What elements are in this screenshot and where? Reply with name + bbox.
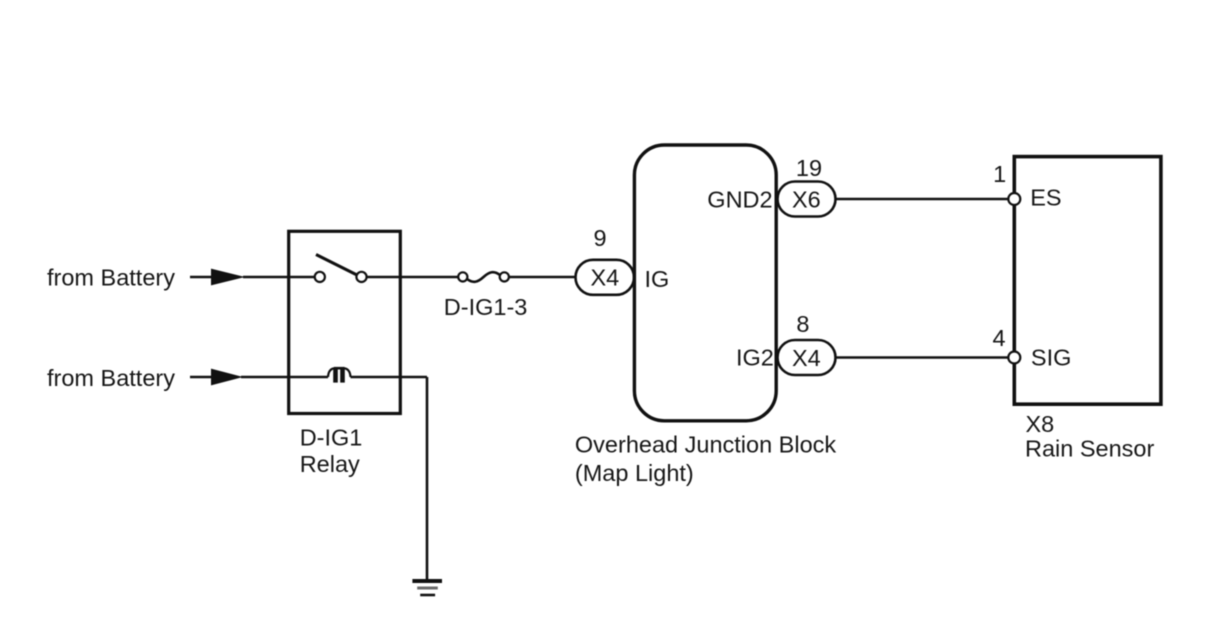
svg-text:X4: X4 bbox=[792, 345, 821, 371]
svg-text:IG: IG bbox=[645, 266, 670, 292]
svg-text:X4: X4 bbox=[591, 265, 620, 291]
svg-text:from Battery: from Battery bbox=[47, 265, 175, 291]
arrowhead (top battery feed) bbox=[211, 269, 245, 286]
relay coil bbox=[328, 368, 351, 382]
wire: fuse to connector X4 bbox=[509, 276, 576, 279]
wire: coil through relay edge to vertical drop bbox=[351, 376, 428, 379]
pin 1 terminal circle bbox=[1008, 193, 1020, 205]
relay switch left contact bbox=[315, 272, 325, 282]
wire: X6 to rain sensor ES bbox=[836, 198, 1009, 201]
svg-text:D-IG1-3: D-IG1-3 bbox=[444, 294, 528, 320]
svg-text:SIG: SIG bbox=[1031, 345, 1071, 371]
connector X6 (pin 19) bbox=[778, 182, 836, 217]
arrow tail wire (bottom battery feed) bbox=[190, 376, 214, 379]
svg-text:4: 4 bbox=[993, 325, 1006, 351]
svg-text:Overhead Junction Block: Overhead Junction Block bbox=[575, 431, 837, 457]
svg-text:(Map Light): (Map Light) bbox=[575, 460, 694, 486]
ground symbol bbox=[412, 581, 442, 595]
connector X4 (pin 8) bbox=[778, 340, 836, 375]
svg-text:19: 19 bbox=[796, 155, 822, 181]
svg-text:ES: ES bbox=[1030, 184, 1061, 210]
svg-text:8: 8 bbox=[796, 311, 809, 337]
pin 4 terminal circle bbox=[1008, 352, 1020, 364]
fuse left terminal bbox=[458, 272, 467, 281]
wire: switch to fuse bbox=[367, 276, 460, 279]
rain sensor X8 box bbox=[1014, 157, 1161, 405]
svg-text:1: 1 bbox=[993, 161, 1006, 187]
wire: arrow to relay switch left contact bbox=[243, 276, 315, 279]
relay D-IG1 box bbox=[289, 231, 401, 413]
fuse right terminal bbox=[500, 272, 509, 281]
svg-text:Relay: Relay bbox=[300, 451, 360, 477]
connector X4 (pin 9) bbox=[576, 260, 635, 295]
svg-text:IG2: IG2 bbox=[736, 345, 774, 371]
svg-text:GND2: GND2 bbox=[707, 186, 772, 212]
svg-text:from Battery: from Battery bbox=[47, 365, 175, 391]
svg-text:X6: X6 bbox=[792, 186, 821, 212]
wire: arrow to relay coil bbox=[241, 376, 328, 379]
relay switch arm bbox=[316, 255, 358, 276]
svg-text:9: 9 bbox=[594, 225, 607, 251]
wire: vertical drop to ground bbox=[426, 377, 429, 580]
wire: X4 to rain sensor SIG bbox=[836, 356, 1009, 359]
overhead junction block outline bbox=[634, 145, 776, 421]
svg-text:D-IG1: D-IG1 bbox=[300, 425, 363, 451]
relay switch right contact bbox=[356, 272, 366, 282]
svg-text:X8: X8 bbox=[1026, 411, 1055, 437]
arrow tail wire (top battery feed) bbox=[190, 276, 214, 279]
svg-text:Rain Sensor: Rain Sensor bbox=[1025, 436, 1154, 462]
fuse D-IG1-3 element bbox=[467, 272, 500, 282]
arrowhead (bottom battery feed) bbox=[211, 369, 243, 386]
